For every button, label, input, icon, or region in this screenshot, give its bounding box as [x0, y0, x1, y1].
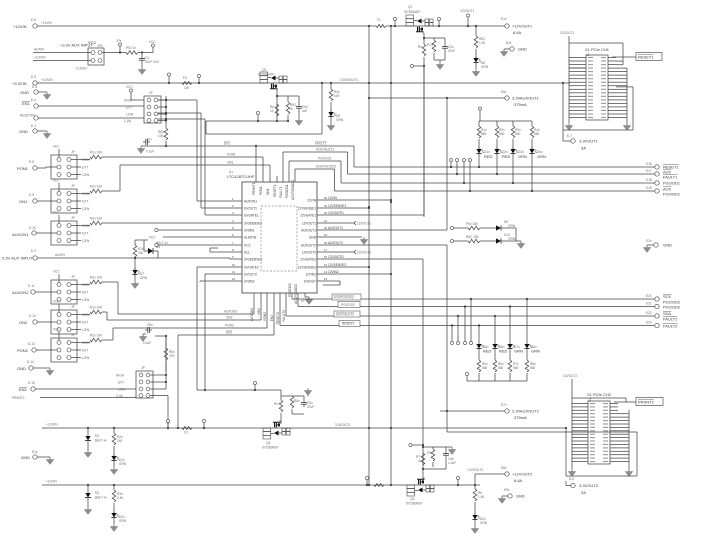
svg-text:E22: E22: [646, 311, 652, 315]
svg-text:GND: GND: [19, 129, 28, 134]
svg-text:E-7: E-7: [567, 134, 572, 138]
svg-text:EN1: EN1: [22, 101, 31, 106]
svg-text:RESET1: RESET1: [273, 184, 277, 197]
svg-text:PGOOD1: PGOOD1: [318, 157, 332, 161]
svg-text:EN1: EN1: [224, 142, 230, 146]
svg-text:6.6A: 6.6A: [514, 478, 523, 483]
svg-text:GND: GND: [309, 236, 317, 240]
svg-text:E-8: E-8: [29, 160, 34, 164]
svg-text:GRN: GRN: [508, 237, 516, 241]
svg-text:560: 560: [498, 366, 504, 370]
svg-text:ACKFAULT2: ACKFAULT2: [336, 313, 354, 317]
svg-text:+12VOUT2: +12VOUT2: [467, 468, 483, 472]
svg-text:Si7336ADP: Si7336ADP: [262, 446, 278, 450]
svg-text:SDA: SDA: [663, 311, 672, 316]
svg-text:UVOUT2: UVOUT2: [244, 273, 257, 277]
svg-text:Q4: Q4: [266, 441, 270, 445]
svg-text:R3x 10K: R3x 10K: [90, 217, 103, 221]
svg-text:47uF: 47uF: [307, 405, 314, 409]
svg-text:12VIN: 12VIN: [328, 196, 338, 200]
svg-text:AUXON2: AUXON2: [224, 310, 237, 314]
svg-text:GRN: GRN: [508, 224, 516, 228]
svg-text:12VIN2: 12VIN2: [328, 270, 339, 274]
svg-text:AUXON1: AUXON1: [244, 200, 257, 204]
svg-text:3A: 3A: [581, 490, 586, 495]
svg-text:GND: GND: [516, 494, 525, 499]
svg-text:+3.3VIN: +3.3VIN: [41, 78, 53, 82]
svg-text:560: 560: [530, 366, 536, 370]
svg-text:AUXOUT2: AUXOUT2: [301, 244, 316, 248]
svg-text:SCK: SCK: [663, 294, 672, 299]
svg-text:10K: 10K: [334, 94, 341, 98]
svg-text:12VSENSE1: 12VSENSE1: [328, 204, 346, 208]
svg-text:GRN: GRN: [514, 349, 523, 354]
svg-text:VCC: VCC: [126, 85, 133, 89]
svg-text:GND: GND: [17, 366, 26, 371]
svg-text:E-10: E-10: [29, 226, 36, 230]
svg-text:R1x 10K: R1x 10K: [90, 151, 103, 155]
svg-text:PON2: PON2: [263, 312, 267, 321]
svg-text:EN2: EN2: [19, 387, 28, 392]
svg-text:E-2: E-2: [31, 249, 36, 253]
svg-text:E8x: E8x: [501, 466, 507, 470]
svg-text:C8x: C8x: [147, 323, 153, 327]
svg-text:E-15: E-15: [28, 381, 35, 385]
svg-text:12VGATE2: 12VGATE2: [300, 258, 316, 262]
svg-text:PCx: PCx: [427, 43, 433, 47]
svg-text:UVOUT1: UVOUT1: [244, 207, 257, 211]
svg-text:3.3VOUT1: 3.3VOUT1: [579, 139, 599, 144]
svg-text:560: 560: [515, 132, 521, 136]
svg-text:1W: 1W: [184, 86, 189, 90]
svg-text:PON1: PON1: [227, 153, 236, 157]
svg-text:e2: e2: [301, 299, 305, 303]
svg-text:E-12: E-12: [29, 314, 36, 318]
svg-text:3V3SENSE2: 3V3SENSE2: [244, 258, 262, 262]
svg-text:E2x: E2x: [506, 41, 512, 45]
svg-text:+3.3VIN: +3.3VIN: [12, 81, 27, 86]
svg-text:J2: J2: [588, 398, 592, 402]
svg-text:0.1uF: 0.1uF: [143, 341, 151, 345]
svg-text:240: 240: [138, 251, 144, 255]
svg-text:GRN: GRN: [518, 154, 527, 159]
svg-text:GND: GND: [518, 47, 527, 52]
svg-text:E2x: E2x: [646, 239, 652, 243]
svg-text:3V3IN1: 3V3IN1: [244, 229, 255, 233]
svg-text:AUXOUT1: AUXOUT1: [328, 226, 343, 230]
svg-text:+3.3VIN: +3.3VIN: [75, 67, 87, 71]
svg-text:E1x: E1x: [501, 17, 507, 21]
svg-text:24: 24: [324, 196, 328, 200]
svg-text:EN2: EN2: [226, 331, 232, 335]
svg-text:F1: F1: [377, 18, 381, 22]
svg-text:E7x: E7x: [501, 403, 507, 407]
svg-text:E6x: E6x: [501, 90, 507, 94]
svg-text:12VGATE2: 12VGATE2: [328, 255, 344, 259]
svg-text:UVGATE1: UVGATE1: [244, 214, 259, 218]
svg-text:uuF: uuF: [302, 109, 308, 113]
svg-text:23: 23: [324, 204, 328, 208]
svg-text:GND: GND: [20, 90, 29, 95]
svg-text:ON1: ON1: [266, 188, 270, 195]
svg-text:ACKPGOOD1: ACKPGOOD1: [291, 180, 295, 200]
svg-text:D3: D3: [95, 491, 99, 495]
svg-text:22: 22: [324, 211, 328, 215]
svg-text:ON2: ON2: [19, 320, 28, 325]
svg-text:3A: 3A: [581, 146, 586, 151]
svg-text:GRN: GRN: [119, 519, 127, 523]
svg-text:FAULT1: FAULT1: [315, 142, 327, 146]
svg-text:ON1: ON1: [227, 161, 234, 165]
svg-text:RED: RED: [502, 154, 511, 159]
svg-text:C0x: C0x: [146, 138, 152, 142]
svg-text:RESET2: RESET2: [276, 312, 280, 325]
svg-text:R1x 10K: R1x 10K: [90, 306, 103, 310]
svg-text:Q3: Q3: [410, 497, 414, 501]
svg-text:3V3SENSE1: 3V3SENSE1: [244, 222, 262, 226]
svg-text:E20: E20: [646, 294, 652, 298]
svg-text:375mA: 375mA: [514, 415, 527, 420]
svg-text:0.4K: 0.4K: [117, 496, 124, 500]
svg-text:+3.3VIN: +3.3VIN: [34, 56, 46, 60]
svg-text:12VOUT2: 12VOUT2: [302, 251, 316, 255]
svg-text:AUXIN: AUXIN: [55, 253, 65, 257]
svg-text:E16: E16: [646, 162, 652, 166]
svg-text:ALERTB: ALERTB: [244, 236, 256, 240]
svg-text:RESETIN1: RESETIN1: [20, 114, 36, 118]
svg-text:E9x: E9x: [504, 488, 510, 492]
svg-text:E-14: E-14: [27, 360, 34, 364]
svg-text:PGOOD2: PGOOD2: [663, 305, 681, 310]
svg-text:20: 20: [324, 226, 328, 230]
svg-text:AUXON2: AUXON2: [12, 290, 29, 295]
svg-text:15: 15: [324, 263, 328, 267]
svg-text:BALT-xx: BALT-xx: [95, 439, 107, 443]
svg-text:14: 14: [324, 270, 328, 274]
svg-text:PGOOD2: PGOOD2: [341, 303, 355, 307]
svg-text:+12VOUT1: +12VOUT1: [512, 24, 533, 29]
svg-text:18: 18: [324, 241, 328, 245]
svg-text:3.3VOUT2: 3.3VOUT2: [335, 423, 350, 427]
svg-text:3V3IN2: 3V3IN2: [244, 280, 255, 284]
svg-text:+12VIN: +12VIN: [41, 21, 52, 25]
svg-text:AUXOUT2: AUXOUT2: [328, 241, 343, 245]
svg-text:3.3VAUXOUT1: 3.3VAUXOUT1: [512, 96, 540, 101]
svg-text:E21: E21: [646, 302, 652, 306]
svg-text:3.3VINOUT1: 3.3VINOUT1: [340, 78, 358, 82]
svg-text:10: 10: [270, 109, 274, 113]
svg-text:E11: E11: [569, 477, 575, 481]
svg-text:12VIN: 12VIN: [307, 199, 317, 203]
svg-text:E-4: E-4: [31, 98, 36, 102]
svg-text:PON1: PON1: [259, 186, 263, 195]
svg-text:R2x 10K: R2x 10K: [90, 185, 103, 189]
svg-text:PRSNT2: PRSNT2: [638, 400, 655, 405]
svg-text:SCL: SCL: [244, 251, 250, 255]
svg-text:12VSENSE2: 12VSENSE2: [298, 266, 316, 270]
svg-text:R6C 180: R6C 180: [466, 235, 479, 239]
svg-text:FAULT2: FAULT2: [663, 317, 678, 322]
svg-text:560: 560: [499, 132, 505, 136]
svg-text:FAULT2: FAULT2: [282, 310, 286, 322]
svg-text:RED: RED: [499, 349, 508, 354]
svg-text:0.1uF: 0.1uF: [146, 150, 154, 154]
svg-text:R3x 10K: R3x 10K: [90, 276, 103, 280]
svg-text:12VGATE1: 12VGATE1: [300, 214, 316, 218]
svg-text:BALT-xx: BALT-xx: [95, 496, 107, 500]
svg-text:47uF 10V: 47uF 10V: [145, 60, 160, 64]
svg-text:FAULT2: FAULT2: [663, 324, 678, 329]
svg-text:E-11: E-11: [28, 284, 35, 288]
svg-text:E19: E19: [646, 186, 652, 190]
svg-text:E1x: E1x: [32, 450, 38, 454]
svg-text:X1 PCIe CH2: X1 PCIe CH2: [587, 392, 612, 397]
svg-text:13: 13: [324, 277, 328, 281]
svg-text:ON2: ON2: [257, 308, 261, 315]
svg-text:10: 10: [232, 263, 236, 267]
svg-text:FAULT1: FAULT1: [663, 175, 678, 180]
svg-text:RED: RED: [484, 154, 493, 159]
svg-text:EN2: EN2: [270, 315, 274, 321]
svg-text:RESET1: RESET1: [638, 55, 654, 60]
svg-text:PS1 0r: PS1 0r: [126, 46, 137, 50]
svg-text:UVGATE2: UVGATE2: [244, 266, 259, 270]
svg-text:12VOUT1: 12VOUT1: [460, 9, 474, 13]
svg-text:12: 12: [232, 277, 236, 281]
svg-text:ACKPGOOD2: ACKPGOOD2: [334, 296, 354, 300]
svg-text:560: 560: [482, 366, 488, 370]
svg-text:R6x: R6x: [294, 399, 300, 403]
svg-text:VCC: VCC: [149, 236, 156, 240]
svg-text:560: 560: [534, 132, 540, 136]
svg-text:PON2: PON2: [17, 348, 29, 353]
svg-text:PGOOD1: PGOOD1: [663, 181, 681, 186]
svg-text:3.3V AUX INPUT: 3.3V AUX INPUT: [2, 256, 33, 261]
svg-text:GRN: GRN: [481, 65, 489, 69]
svg-text:AUXON2: AUXON2: [250, 308, 254, 321]
svg-text:AUXON1: AUXON1: [12, 232, 29, 237]
svg-text:12VOUT2: 12VOUT2: [563, 374, 577, 378]
svg-text:PGOOD1: PGOOD1: [285, 184, 289, 198]
svg-text:ACKPGOOD2: ACKPGOOD2: [294, 284, 298, 304]
svg-text:GRN: GRN: [480, 521, 488, 525]
svg-text:E-6: E-6: [31, 18, 36, 22]
svg-text:JP6: JP6: [97, 44, 103, 48]
svg-text:RESET2: RESET2: [342, 322, 355, 326]
svg-text:+12VOUT2: +12VOUT2: [512, 472, 533, 477]
svg-text:375mA: 375mA: [514, 102, 527, 107]
svg-text:RED: RED: [483, 349, 492, 354]
svg-text:GRN: GRN: [140, 276, 148, 280]
svg-text:560: 560: [513, 366, 519, 370]
svg-text:6.6A: 6.6A: [513, 30, 522, 35]
svg-text:PRSNT2: PRSNT2: [12, 396, 25, 400]
svg-text:10K: 10K: [158, 134, 165, 138]
svg-text:12VSENSE1: 12VSENSE1: [298, 207, 316, 211]
svg-text:16: 16: [324, 255, 328, 259]
svg-text:GRN: GRN: [531, 349, 540, 354]
svg-text:E-9: E-9: [29, 193, 34, 197]
svg-text:240: 240: [117, 439, 123, 443]
svg-text:VCC: VCC: [244, 244, 251, 248]
svg-text:GRN: GRN: [119, 462, 127, 466]
svg-text:LTC4287CUHF: LTC4287CUHF: [227, 174, 255, 179]
svg-text:47uF: 47uF: [448, 49, 455, 53]
svg-text:GRN: GRN: [537, 154, 546, 159]
svg-text:3.3VAUXOUT2: 3.3VAUXOUT2: [512, 409, 540, 414]
svg-text:GRN: GRN: [336, 118, 344, 122]
svg-text:R2x 10K: R2x 10K: [90, 334, 103, 338]
svg-text:Q2: Q2: [262, 68, 266, 72]
svg-text:PGOOD2: PGOOD2: [288, 283, 292, 297]
svg-text:X1 PCIe CH1: X1 PCIe CH1: [585, 47, 610, 52]
svg-text:JPx: JPx: [116, 39, 122, 43]
svg-text:GND: GND: [663, 243, 672, 248]
svg-text:ON2: ON2: [226, 316, 233, 320]
svg-text:D2: D2: [95, 434, 99, 438]
svg-text:Rx: Rx: [418, 45, 422, 49]
svg-text:PGOOD1: PGOOD1: [663, 192, 681, 197]
svg-text:47K: 47K: [169, 354, 176, 358]
svg-text:Si7336ADP: Si7336ADP: [406, 502, 422, 506]
svg-text:VCC: VCC: [149, 40, 156, 44]
svg-text:E-5: E-5: [31, 75, 36, 79]
svg-text:+3.3VIN: +3.3VIN: [46, 423, 58, 427]
svg-text:E-13: E-13: [28, 342, 35, 346]
svg-text:ACKFAULT1: ACKFAULT1: [316, 148, 334, 152]
svg-text:PON2: PON2: [225, 324, 234, 328]
svg-text:E-1: E-1: [31, 124, 36, 128]
svg-text:PON1: PON1: [17, 166, 29, 171]
svg-text:FAULT1: FAULT1: [279, 186, 283, 198]
svg-text:+12VIN: +12VIN: [46, 480, 57, 484]
svg-text:ON1: ON1: [19, 199, 28, 204]
svg-text:Q1: Q1: [408, 5, 412, 9]
svg-text:11: 11: [232, 270, 235, 274]
svg-text:12VOUT1: 12VOUT1: [302, 222, 316, 226]
svg-text:P5x 180: P5x 180: [466, 222, 478, 226]
svg-text:19: 19: [324, 233, 328, 237]
svg-text:PRSNT1: PRSNT1: [252, 182, 256, 195]
svg-text:1.0uF: 1.0uF: [448, 461, 456, 465]
svg-text:12VSENSE2: 12VSENSE2: [328, 263, 346, 267]
svg-text:21: 21: [324, 219, 328, 223]
svg-text:1.4K: 1.4K: [478, 495, 485, 499]
svg-text:E17: E17: [646, 169, 652, 173]
svg-text:+12VIN: +12VIN: [13, 24, 27, 29]
svg-text:3.3VOUT2: 3.3VOUT2: [579, 483, 599, 488]
svg-text:Rx: Rx: [274, 402, 278, 406]
svg-text:AUXOUT1: AUXOUT1: [301, 229, 316, 233]
svg-text:+3.3V AUX INPUT: +3.3V AUX INPUT: [60, 43, 93, 48]
svg-text:AUXIN: AUXIN: [34, 48, 44, 52]
svg-text:12VGATE1: 12VGATE1: [328, 211, 344, 215]
svg-text:1.3K: 1.3K: [479, 41, 486, 45]
svg-text:P6x: P6x: [427, 451, 433, 455]
svg-text:E18: E18: [646, 178, 652, 182]
svg-text:Si7336ADP: Si7336ADP: [258, 73, 274, 77]
svg-text:560: 560: [481, 132, 487, 136]
svg-text:Si7336ADP: Si7336ADP: [404, 10, 420, 14]
svg-text:ACKPGOOD1: ACKPGOOD1: [316, 165, 336, 169]
svg-text:E23: E23: [646, 321, 652, 325]
svg-text:F3: F3: [183, 76, 187, 80]
svg-text:12VOUT1: 12VOUT1: [560, 31, 574, 35]
svg-text:E-3: E-3: [32, 85, 37, 89]
svg-text:3V3OUT: 3V3OUT: [304, 280, 316, 284]
svg-text:12VIN2: 12VIN2: [305, 273, 316, 277]
svg-text:17: 17: [324, 248, 328, 252]
svg-text:GND: GND: [21, 455, 30, 460]
svg-text:F2: F2: [184, 431, 188, 435]
